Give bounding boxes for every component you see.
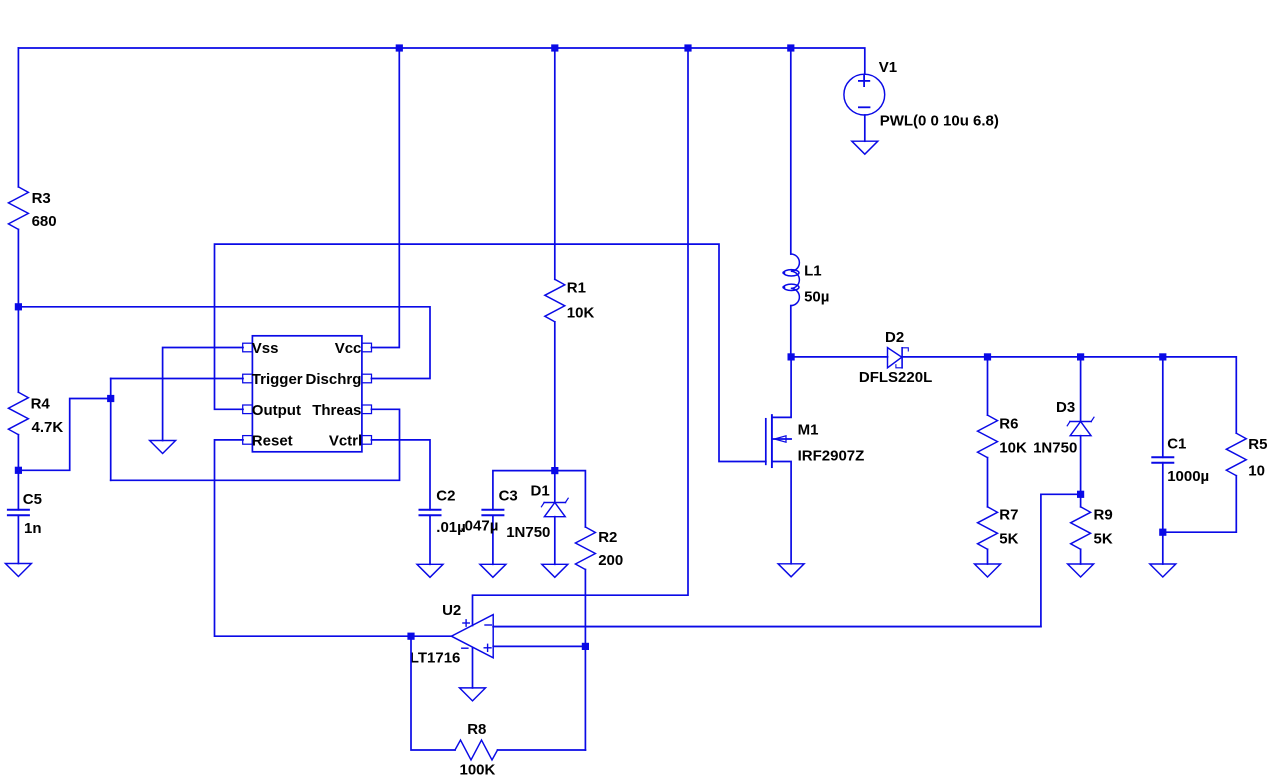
wire R4-C5 tap to trigger net [18, 399, 110, 471]
op-amp U2 body [410, 602, 493, 666]
wire node to D2 anode [791, 356, 887, 358]
node D3/R9/feedback junction [1077, 491, 1084, 498]
svg-text:1N750: 1N750 [506, 524, 550, 541]
node L1/M1/D2 junction [788, 353, 795, 360]
resistor R8 [455, 721, 498, 778]
svg-text:Vss: Vss [252, 340, 279, 357]
svg-text:R5: R5 [1248, 436, 1267, 453]
voltage source V1 circle [844, 74, 885, 115]
node trigger net junction [107, 395, 114, 402]
wire R6 to R7 [987, 458, 989, 507]
wire to Trigger pin [111, 378, 243, 380]
node R3/R4/Dischrg junction [15, 303, 22, 310]
svg-text:1n: 1n [24, 520, 42, 537]
svg-text:Vcc: Vcc [335, 340, 362, 357]
transistor M1 source [772, 462, 791, 564]
wire R8 left leg [411, 636, 455, 750]
wire R5 bottom to C1 [1163, 476, 1237, 533]
svg-text:M1: M1 [798, 422, 819, 439]
svg-text:Trigger: Trigger [252, 371, 303, 388]
capacitor C3 [461, 488, 518, 565]
wire Output pin to MOSFET gate [215, 244, 766, 461]
voltage source V1 labels [879, 59, 999, 129]
voltage source V1 plus [859, 76, 869, 86]
pin Reset [243, 432, 293, 449]
pin Dischrg [306, 371, 372, 388]
wire to C3 [493, 471, 555, 510]
node R1/C3/D1/R2 junction [551, 467, 558, 474]
node V+ rail junction [684, 44, 691, 51]
svg-text:10K: 10K [999, 440, 1027, 457]
wire Vss pin to ground [163, 348, 243, 441]
resistor R5 [1226, 433, 1267, 479]
svg-text:V1: V1 [879, 59, 897, 76]
svg-text:1000µ: 1000µ [1167, 468, 1209, 485]
node D3 rail junction [1077, 353, 1084, 360]
capacitor C5 [8, 470, 42, 563]
ground below C3 [480, 564, 506, 577]
resistor R6 [978, 415, 1027, 458]
svg-text:10K: 10K [567, 305, 595, 322]
node R4/C5 junction [15, 467, 22, 474]
svg-text:200: 200 [598, 552, 623, 569]
transistor M1 labels [798, 422, 865, 465]
wire V1 bottom lead [864, 115, 866, 141]
wire top supply rail [18, 48, 864, 74]
resistor R1 [545, 279, 595, 322]
wire R9 top lead [1080, 494, 1082, 507]
wire R6 top lead [987, 357, 989, 415]
pin Vctrl [329, 432, 372, 449]
svg-text:C3: C3 [499, 488, 518, 505]
op-amp U2 V+ mark [463, 620, 469, 626]
wire L1 top lead [790, 48, 792, 254]
transistor M1 body stub and arrow [772, 436, 791, 442]
svg-text:R7: R7 [999, 507, 1018, 524]
node C1/R5 bottom junction [1159, 529, 1166, 536]
555 timer U1 body [252, 336, 362, 452]
zener diode D3 [1033, 399, 1094, 457]
op-amp U2 plus input mark [484, 644, 491, 651]
op-amp U2 V- mark [462, 647, 468, 649]
ground below V1 [852, 141, 878, 154]
ground below R7 [975, 564, 1001, 577]
svg-text:5K: 5K [1094, 531, 1113, 548]
wire R1 top lead from rail [554, 48, 556, 279]
pin Vcc [335, 340, 372, 357]
inductor L1 [782, 254, 829, 306]
wire R4 bottom to node [17, 435, 19, 471]
wire U2 V- to ground [472, 648, 474, 688]
wire R1 bottom to node [554, 322, 556, 471]
node L1 rail junction [787, 44, 794, 51]
svg-text:R1: R1 [567, 280, 586, 297]
op-amp U2 minus input mark [485, 624, 491, 626]
svg-text:4.7K: 4.7K [32, 419, 64, 436]
svg-text:10: 10 [1248, 463, 1265, 480]
wire L1 bottom lead [790, 306, 792, 357]
transistor M1 gate bar [765, 419, 767, 465]
wire R9 bottom lead [1080, 549, 1082, 564]
wire R2 bottom to comparator plus input [584, 570, 586, 751]
wire U2 plus input [493, 645, 585, 647]
resistor R3 [8, 187, 56, 230]
ground below Vss [150, 441, 176, 454]
capacitor C2 [420, 488, 466, 565]
svg-text:D2: D2 [885, 329, 904, 346]
wire C1 top lead [1162, 357, 1164, 457]
svg-text:.047µ: .047µ [461, 518, 499, 535]
wire M1 drain [772, 357, 791, 418]
svg-text:R9: R9 [1094, 507, 1113, 524]
node Vcc rail junction [396, 44, 403, 51]
resistor R9 [1071, 507, 1113, 550]
pin Threas [312, 402, 371, 419]
wire V+ supply drop [473, 48, 689, 626]
wire Reset pin to comparator output [215, 440, 412, 636]
wire to R2 [555, 471, 586, 527]
svg-text:100K: 100K [460, 762, 496, 779]
schottky diode D2 [859, 329, 932, 386]
transistor M1 channel [771, 415, 773, 467]
wire R8 right leg [498, 749, 586, 751]
ground below M1 source [778, 564, 804, 577]
svg-text:U2: U2 [442, 602, 461, 619]
pin Vss [243, 340, 279, 357]
svg-text:680: 680 [32, 213, 57, 230]
svg-text:R3: R3 [32, 190, 51, 207]
svg-text:C2: C2 [436, 488, 455, 505]
ground below C1 [1150, 564, 1176, 577]
ground below C2 [417, 564, 443, 577]
wire R3 bottom to node [17, 229, 19, 306]
wire U2 minus input [493, 626, 1041, 628]
svg-text:D3: D3 [1056, 399, 1075, 416]
node U2 output junction [407, 633, 414, 640]
wire U2 output [411, 635, 451, 637]
svg-text:R2: R2 [598, 529, 617, 546]
ground below D1 [542, 564, 568, 577]
wire Vcc pin to rail [371, 48, 399, 348]
svg-text:Threas: Threas [312, 402, 361, 419]
wire R3 top lead from rail [17, 48, 19, 187]
wire feedback to comparator minus input [493, 494, 1080, 626]
pin Trigger [243, 371, 303, 388]
wire D3 top lead [1080, 357, 1082, 422]
wire R4 top lead [17, 307, 19, 392]
wire trigger/threshold vertical [110, 379, 112, 481]
voltage source V1 minus [859, 106, 870, 108]
svg-text:DFLS220L: DFLS220L [859, 369, 932, 386]
wire Vctrl pin to C2 [371, 440, 430, 510]
wire threshold net [111, 409, 400, 480]
wire D3 to node [1080, 436, 1082, 495]
node plus-input junction [582, 643, 589, 650]
svg-text:R4: R4 [31, 396, 51, 413]
wire discharge net to 555 Dischrg pin [18, 307, 430, 379]
capacitor C1 [1152, 436, 1209, 564]
resistor R2 [575, 527, 623, 570]
svg-text:LT1716: LT1716 [410, 649, 461, 666]
pin Output [243, 402, 301, 419]
zener diode D1 [506, 471, 568, 565]
ground below C5 [5, 564, 31, 577]
svg-text:R8: R8 [467, 721, 486, 738]
wire output rail [902, 357, 1236, 433]
svg-text:C1: C1 [1167, 436, 1186, 453]
ground below U2 [460, 688, 486, 701]
node C1 rail junction [1159, 353, 1166, 360]
svg-text:Reset: Reset [252, 432, 293, 449]
svg-text:R6: R6 [999, 416, 1018, 433]
svg-text:Output: Output [252, 402, 301, 419]
svg-text:50µ: 50µ [804, 288, 829, 305]
node R6 rail junction [984, 353, 991, 360]
svg-text:5K: 5K [999, 531, 1018, 548]
svg-text:L1: L1 [804, 262, 822, 279]
svg-text:IRF2907Z: IRF2907Z [798, 448, 865, 465]
resistor R7 [978, 507, 1019, 550]
resistor R4 [8, 392, 63, 436]
svg-text:C5: C5 [23, 491, 42, 508]
svg-text:Dischrg: Dischrg [306, 371, 362, 388]
svg-text:1N750: 1N750 [1033, 440, 1077, 457]
ground below R9 [1068, 564, 1094, 577]
svg-text:Vctrl: Vctrl [329, 432, 362, 449]
svg-text:D1: D1 [531, 482, 550, 499]
node R1 rail junction [551, 44, 558, 51]
wire R7 bottom lead [987, 549, 989, 564]
svg-text:PWL(0 0 10u 6.8): PWL(0 0 10u 6.8) [880, 112, 999, 129]
